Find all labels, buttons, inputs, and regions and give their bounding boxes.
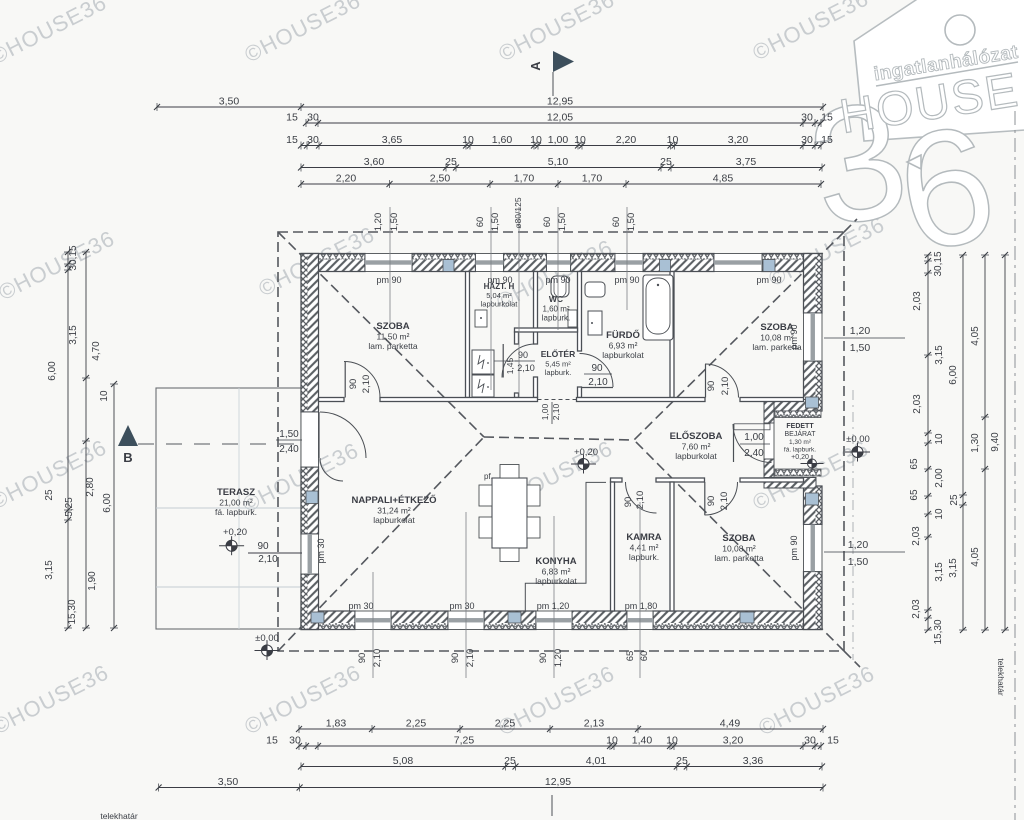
svg-text:lam. parketta: lam. parketta xyxy=(368,341,417,351)
roof overhang dashed outline xyxy=(278,219,860,667)
svg-text:pm 1,80: pm 1,80 xyxy=(625,601,658,611)
svg-text:30: 30 xyxy=(801,112,813,124)
svg-text:pm 90: pm 90 xyxy=(614,275,639,285)
svg-text:1,50: 1,50 xyxy=(848,556,869,568)
svg-text:15: 15 xyxy=(286,134,298,146)
svg-text:+0,20: +0,20 xyxy=(791,454,809,461)
niche left wall stub top xyxy=(764,400,774,424)
svg-text:+0,20: +0,20 xyxy=(223,527,247,538)
svg-text:2,25: 2,25 xyxy=(495,718,516,730)
svg-text:pm 90: pm 90 xyxy=(487,275,512,285)
svg-text:FÜRDŐ: FÜRDŐ xyxy=(606,329,640,341)
wall top band south seg2 xyxy=(380,398,538,402)
window Wb3 bottom (konyha) xyxy=(536,611,572,630)
svg-text:65: 65 xyxy=(909,489,920,501)
svg-text:10: 10 xyxy=(666,735,678,747)
niche bottom wall xyxy=(764,478,816,489)
svg-text:ELŐTÉR: ELŐTÉR xyxy=(541,348,575,359)
terrace plank pale lines xyxy=(156,507,301,509)
svg-text:1,40: 1,40 xyxy=(632,735,653,747)
svg-text:KAMRA: KAMRA xyxy=(626,532,661,543)
svg-text:2,03: 2,03 xyxy=(911,526,922,546)
window Wb4 bottom (kamra) xyxy=(627,611,653,630)
svg-text:4,85: 4,85 xyxy=(713,173,734,185)
svg-text:3,75: 3,75 xyxy=(736,156,757,168)
svg-text:pm 90: pm 90 xyxy=(756,275,781,285)
blue glass markers xyxy=(443,260,454,272)
svg-text:90: 90 xyxy=(518,350,528,360)
svg-text:15,30: 15,30 xyxy=(933,619,944,644)
svg-text:90: 90 xyxy=(450,653,461,664)
svg-text:B: B xyxy=(123,450,132,465)
chairs xyxy=(479,485,492,506)
window left wall (nappali) xyxy=(301,534,319,574)
svg-text:pm 90: pm 90 xyxy=(789,324,799,349)
svg-text:90: 90 xyxy=(591,363,603,374)
svg-text:KONYHA: KONYHA xyxy=(535,556,576,567)
svg-text:25: 25 xyxy=(676,755,688,767)
svg-text:3,15: 3,15 xyxy=(44,560,55,580)
wall kamra west xyxy=(611,482,615,611)
svg-text:2,03: 2,03 xyxy=(911,599,922,619)
svg-text:12,05: 12,05 xyxy=(547,112,573,124)
svg-text:25: 25 xyxy=(504,755,516,767)
svg-text:lapburk.: lapburk. xyxy=(542,314,570,323)
top window centerlines xyxy=(389,207,391,324)
window W3 top (wc) xyxy=(547,254,571,272)
hip diagonal TL xyxy=(278,232,484,437)
svg-text:60: 60 xyxy=(475,217,486,228)
svg-text:10: 10 xyxy=(606,735,618,747)
svg-text:pm 1,20: pm 1,20 xyxy=(537,601,570,611)
wc toilet xyxy=(551,276,569,297)
svg-text:2,00: 2,00 xyxy=(934,468,945,488)
svg-text:15: 15 xyxy=(286,112,298,124)
svg-text:25: 25 xyxy=(660,156,672,168)
svg-text:2,10: 2,10 xyxy=(361,375,372,394)
svg-text:3,50: 3,50 xyxy=(218,776,239,788)
svg-text:2,80: 2,80 xyxy=(85,477,96,497)
svg-text:1,60: 1,60 xyxy=(492,134,513,146)
svg-text:1,20: 1,20 xyxy=(850,325,871,337)
right window dim 1 xyxy=(824,337,905,339)
svg-text:25: 25 xyxy=(44,489,55,501)
svg-text:1,20: 1,20 xyxy=(553,649,564,668)
svg-text:6,00: 6,00 xyxy=(102,493,113,513)
svg-text:11,50 m²: 11,50 m² xyxy=(377,332,410,342)
svg-text:pm 90: pm 90 xyxy=(545,275,570,285)
dim line bottom3 xyxy=(301,766,822,768)
svg-text:31,24 m²: 31,24 m² xyxy=(377,506,411,516)
svg-text:lapburkolat: lapburkolat xyxy=(373,515,415,525)
exterior wall left: segments xyxy=(301,254,308,413)
wall furdo / szoba TR xyxy=(670,272,674,398)
svg-text:1,00: 1,00 xyxy=(744,432,764,443)
svg-text:2,40: 2,40 xyxy=(279,444,299,455)
hip extension BR xyxy=(844,651,860,667)
svg-text:10: 10 xyxy=(934,433,945,445)
svg-text:10: 10 xyxy=(99,390,110,402)
svg-text:pf.: pf. xyxy=(484,472,493,481)
svg-text:lam. parketta: lam. parketta xyxy=(714,553,763,563)
svg-text:pm 90: pm 90 xyxy=(789,535,799,560)
svg-text:SZOBA: SZOBA xyxy=(376,321,409,332)
ridge xyxy=(484,437,634,440)
dim line bottom2 xyxy=(299,745,821,747)
svg-text:6,00: 6,00 xyxy=(47,361,58,381)
svg-text:2,50: 2,50 xyxy=(430,173,451,185)
svg-text:6,83 m²: 6,83 m² xyxy=(542,567,571,577)
window Wb1 bottom xyxy=(355,611,391,630)
svg-text:15: 15 xyxy=(827,735,839,747)
door entry (1.00) xyxy=(733,424,772,463)
svg-text:10: 10 xyxy=(530,134,542,146)
svg-text:NAPPALI+ÉTKEZŐ: NAPPALI+ÉTKEZŐ xyxy=(351,494,436,506)
svg-text:pm 90: pm 90 xyxy=(376,275,401,285)
hip extension TR xyxy=(844,219,857,232)
svg-text:30,15: 30,15 xyxy=(68,245,79,270)
wall wc / furdo upper xyxy=(578,272,582,352)
wall szoba TL / hazt.h xyxy=(466,272,470,398)
svg-text:1,00: 1,00 xyxy=(548,134,569,146)
svg-text:90: 90 xyxy=(357,653,368,664)
svg-text:60: 60 xyxy=(639,651,650,662)
section marker A xyxy=(553,51,574,72)
svg-text:5,08: 5,08 xyxy=(393,755,414,767)
svg-text:60: 60 xyxy=(542,217,553,228)
dim line bottom4 xyxy=(159,787,823,789)
svg-text:2,25: 2,25 xyxy=(406,718,427,730)
wall hazt.h / wc upper xyxy=(534,272,538,345)
dim line bottom1 xyxy=(299,728,823,730)
svg-text:30: 30 xyxy=(801,134,813,146)
svg-text:1,90: 1,90 xyxy=(87,571,98,591)
svg-text:2,10: 2,10 xyxy=(517,363,535,373)
svg-text:1,60 m²: 1,60 m² xyxy=(542,305,569,314)
svg-text:1,50: 1,50 xyxy=(389,213,400,232)
svg-text:25: 25 xyxy=(445,156,457,168)
svg-text:2,10: 2,10 xyxy=(551,403,561,420)
svg-text:10: 10 xyxy=(934,508,945,520)
fedett bejarat niche top wall xyxy=(764,400,816,412)
svg-text:3,36: 3,36 xyxy=(743,755,764,767)
svg-text:telekhatár: telekhatár xyxy=(100,811,137,820)
bottom window centerlines xyxy=(372,572,374,678)
svg-text:+0,20: +0,20 xyxy=(574,447,598,458)
svg-text:2,20: 2,20 xyxy=(616,134,637,146)
wall eloszoba south seg1 (kamra) xyxy=(611,478,623,482)
svg-text:1,00: 1,00 xyxy=(540,403,550,420)
window W1 top (szoba TL) xyxy=(365,254,412,272)
dim line top2 12,05 xyxy=(306,122,821,124)
eloter opening to hall dashed lintel xyxy=(538,399,577,401)
svg-text:90: 90 xyxy=(538,653,549,664)
svg-text:1,70: 1,70 xyxy=(514,173,535,185)
svg-text:1,70: 1,70 xyxy=(582,173,603,185)
svg-text:30: 30 xyxy=(289,735,301,747)
door terrace (1.50) xyxy=(320,412,366,458)
svg-text:10,08 m²: 10,08 m² xyxy=(722,544,756,554)
dim line right C xyxy=(984,255,986,630)
svg-text:30: 30 xyxy=(804,735,816,747)
svg-text:65: 65 xyxy=(909,458,920,470)
svg-text:3,20: 3,20 xyxy=(723,735,744,747)
svg-text:2,13: 2,13 xyxy=(584,718,605,730)
svg-text:4,01: 4,01 xyxy=(586,755,607,767)
svg-text:2,03: 2,03 xyxy=(912,394,923,414)
svg-text:4,49: 4,49 xyxy=(720,718,741,730)
svg-text:lapburkolat: lapburkolat xyxy=(602,350,644,360)
svg-text:10: 10 xyxy=(462,134,474,146)
dim line top4 axis chain xyxy=(301,167,822,169)
svg-text:TERASZ: TERASZ xyxy=(217,487,255,498)
svg-text:1,83: 1,83 xyxy=(326,718,347,730)
wc sink xyxy=(568,310,577,327)
dim line top1 3,50 / 12,95 xyxy=(157,106,823,108)
svg-text:3,60: 3,60 xyxy=(364,156,385,168)
svg-text:2,10: 2,10 xyxy=(635,491,646,510)
door furdo xyxy=(580,354,614,388)
svg-text:30,15: 30,15 xyxy=(933,251,944,276)
svg-text:12,95: 12,95 xyxy=(547,96,573,108)
hip diagonal BL xyxy=(278,437,484,651)
svg-text:2,40: 2,40 xyxy=(744,448,764,459)
entry door opening xyxy=(764,423,774,459)
svg-text:2,10: 2,10 xyxy=(372,649,383,668)
svg-text:65: 65 xyxy=(625,651,636,662)
wall eloszoba south seg3 xyxy=(740,478,804,482)
svg-text:90: 90 xyxy=(257,541,269,552)
svg-text:3,15: 3,15 xyxy=(934,562,945,582)
svg-text:2,10: 2,10 xyxy=(719,492,730,511)
hazt.h sink xyxy=(475,310,487,327)
wall wc south xyxy=(515,328,578,332)
wall top band south seg1 xyxy=(319,398,345,402)
wall eloszoba south seg2 xyxy=(656,478,705,482)
hip diagonal BR xyxy=(634,440,844,651)
window Wr1 right wall (szoba TR) xyxy=(804,313,823,361)
svg-text:1,45: 1,45 xyxy=(505,357,515,374)
svg-text:15: 15 xyxy=(821,134,833,146)
svg-text:90: 90 xyxy=(706,496,717,507)
svg-text:3,15: 3,15 xyxy=(934,345,945,365)
svg-text:15: 15 xyxy=(821,112,833,124)
eloter opening size (rotated) xyxy=(551,402,553,424)
svg-text:10: 10 xyxy=(574,134,586,146)
svg-text:4,05: 4,05 xyxy=(970,326,981,346)
wall hazt.h / wc lower stub xyxy=(534,377,538,398)
svg-text:BEJÁRAT: BEJÁRAT xyxy=(785,429,817,438)
hazt.h washer 2 xyxy=(472,375,494,397)
svg-text:2,10: 2,10 xyxy=(720,377,731,396)
right window dim 2 xyxy=(824,551,905,553)
svg-text:pm 30: pm 30 xyxy=(449,601,474,611)
hip diagonal TR xyxy=(634,232,844,440)
door szoba TR xyxy=(705,364,739,398)
svg-text:90: 90 xyxy=(623,497,634,508)
svg-text:4,05: 4,05 xyxy=(970,547,981,567)
svg-text:30: 30 xyxy=(307,134,319,146)
svg-text:A: A xyxy=(528,61,543,71)
bathtub xyxy=(643,275,673,340)
svg-text:telekhatár: telekhatár xyxy=(996,658,1006,695)
svg-text:2,03: 2,03 xyxy=(912,291,923,311)
svg-text:1,50: 1,50 xyxy=(557,213,568,232)
svg-text:1,50: 1,50 xyxy=(626,213,637,232)
window Wb2 bottom xyxy=(448,611,484,630)
svg-text:5,25: 5,25 xyxy=(64,497,75,517)
window W5 top (szoba TR) xyxy=(714,254,762,272)
window Wr2 right wall (szoba BR) xyxy=(804,525,823,572)
svg-text:7,60 m²: 7,60 m² xyxy=(682,442,711,452)
svg-text:3,15: 3,15 xyxy=(948,558,959,578)
svg-text:3,50: 3,50 xyxy=(219,96,240,108)
svg-text:fá. lapburk.: fá. lapburk. xyxy=(784,447,816,454)
svg-text:2,10: 2,10 xyxy=(588,377,608,388)
dining table xyxy=(492,478,527,548)
svg-text:15,30: 15,30 xyxy=(67,599,78,624)
svg-text:4,41 m²: 4,41 m² xyxy=(630,543,659,553)
HOUSE36 logo tag xyxy=(796,0,1024,287)
svg-text:10: 10 xyxy=(667,134,679,146)
svg-text:9,40: 9,40 xyxy=(990,432,1001,452)
wall kamra / szoba BR xyxy=(670,482,674,611)
dim line top3 room chain xyxy=(301,145,821,147)
exterior wall right: segments xyxy=(816,254,823,314)
svg-text:5,10: 5,10 xyxy=(548,156,569,168)
svg-text:1,20: 1,20 xyxy=(373,213,384,232)
niche left wall stub bottom xyxy=(764,459,774,488)
section marker B xyxy=(118,425,138,446)
svg-text:lapburkolat: lapburkolat xyxy=(481,300,519,309)
svg-text:ø80/125: ø80/125 xyxy=(513,197,523,228)
svg-text:ELŐSZOBA: ELŐSZOBA xyxy=(670,430,723,442)
svg-text:1,50: 1,50 xyxy=(850,342,871,354)
terrace door opening left wall xyxy=(301,412,319,467)
window W2 top (hazt.h) xyxy=(476,254,504,272)
dim line right B xyxy=(962,255,964,630)
svg-text:lapburkolat: lapburkolat xyxy=(675,451,717,461)
wall top band south seg4 xyxy=(740,398,804,402)
terrace outline xyxy=(156,388,301,629)
bath sink xyxy=(585,282,605,297)
svg-text:2,10: 2,10 xyxy=(465,649,476,668)
svg-text:3,65: 3,65 xyxy=(382,134,403,146)
svg-text:lapburk.: lapburk. xyxy=(545,368,572,377)
svg-text:2,20: 2,20 xyxy=(336,173,357,185)
wall eloter west upper xyxy=(515,332,519,344)
svg-text:FEDETT: FEDETT xyxy=(786,423,814,430)
svg-text:25: 25 xyxy=(949,494,960,506)
svg-text:1,50: 1,50 xyxy=(279,429,299,440)
svg-text:fá. lapburk.: fá. lapburk. xyxy=(215,507,257,517)
dim line left A xyxy=(67,252,69,628)
svg-text:1,30 m²: 1,30 m² xyxy=(789,439,812,446)
dim line top5 window chain xyxy=(301,183,821,185)
konyha boundary thin line xyxy=(525,482,606,611)
svg-text:3,15: 3,15 xyxy=(68,325,79,345)
svg-text:60: 60 xyxy=(611,217,622,228)
svg-text:1,20: 1,20 xyxy=(848,539,869,551)
svg-text:6,93 m²: 6,93 m² xyxy=(609,341,638,351)
svg-text:15: 15 xyxy=(266,735,278,747)
svg-text:1,50: 1,50 xyxy=(490,213,501,232)
svg-text:lapburk.: lapburk. xyxy=(629,552,659,562)
svg-text:12,95: 12,95 xyxy=(545,776,571,788)
wall wc / furdo lower stub xyxy=(578,387,582,398)
svg-text:WC: WC xyxy=(549,294,563,304)
svg-text:6,00: 6,00 xyxy=(948,365,959,385)
left window size xyxy=(248,552,302,554)
svg-text:90: 90 xyxy=(706,381,717,392)
door szoba BR xyxy=(705,482,738,515)
bath wc xyxy=(588,311,602,335)
dim line right D xyxy=(1004,255,1006,630)
svg-text:90: 90 xyxy=(348,379,359,390)
dim line left B xyxy=(85,252,87,628)
svg-text:4,70: 4,70 xyxy=(91,341,102,361)
svg-text:SZOBA: SZOBA xyxy=(722,533,755,544)
wall eloter west lower stub xyxy=(515,393,519,398)
dim line right A xyxy=(927,255,929,630)
svg-text:30: 30 xyxy=(307,112,319,124)
property line right xyxy=(1014,111,1016,820)
door hazt.h xyxy=(502,344,536,378)
door szoba TL xyxy=(344,362,380,398)
svg-text:2,10: 2,10 xyxy=(258,554,278,565)
svg-text:1,30: 1,30 xyxy=(970,433,981,453)
svg-text:lapburkolat: lapburkolat xyxy=(535,576,577,586)
section line B-B dashes xyxy=(138,443,310,445)
dim line left C xyxy=(113,384,115,628)
exterior wall top: segments xyxy=(301,254,365,260)
window W4 top (furdo) xyxy=(615,254,643,272)
door kamra xyxy=(626,482,657,513)
wall top band south seg3 xyxy=(577,398,706,402)
exterior wall bottom: segments xyxy=(301,623,355,630)
svg-text:pm 30: pm 30 xyxy=(316,538,326,563)
svg-text:7,25: 7,25 xyxy=(454,735,475,747)
level marker fedett bejarat xyxy=(801,455,824,472)
hazt.h washer 1 xyxy=(472,350,494,374)
svg-text:pm 30: pm 30 xyxy=(348,601,373,611)
svg-text:3,20: 3,20 xyxy=(728,134,749,146)
svg-text:21,00 m²: 21,00 m² xyxy=(219,498,253,508)
